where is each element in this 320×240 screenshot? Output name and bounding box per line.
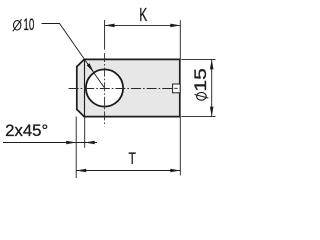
Ø15 bottom arrow — [210, 107, 214, 117]
hole circle Ø10 — [86, 69, 123, 106]
dimension T line — [76, 170, 180, 172]
chamfer left arrow — [66, 141, 76, 145]
Ø15 extension line bottom — [181, 116, 215, 118]
K left arrow — [105, 24, 115, 28]
leader arrowhead — [87, 63, 94, 72]
label Ø10 phi symbol — [13, 19, 22, 31]
K extension line right — [179, 20, 181, 59]
chamfer right arrow — [85, 141, 95, 145]
Ø15 extension line top — [181, 58, 215, 60]
svg-text:K: K — [139, 4, 147, 25]
chamfer dimension line 2x45 — [3, 142, 76, 144]
chamfer extension line (chamfer edge) — [84, 117, 86, 148]
dimension Ø15 line — [211, 59, 213, 116]
center hole notch at right face — [173, 84, 181, 93]
leader line for Ø10 — [42, 24, 104, 88]
notch centerline dash — [174, 87, 178, 89]
chamfer extension line (left edge) — [75, 117, 77, 178]
dimension K line — [105, 24, 181, 26]
vertical centerline / K extension line — [104, 20, 106, 50]
label Ø15 (rotated) phi symbol — [195, 92, 209, 100]
T right arrow — [170, 169, 180, 173]
Ø15 top arrow — [210, 59, 214, 69]
svg-text:T: T — [129, 150, 136, 168]
svg-text:10: 10 — [23, 15, 34, 34]
K right arrow — [170, 24, 180, 28]
T extension line right — [179, 117, 181, 176]
part body (chamfered cylinder, side view) — [77, 59, 180, 116]
svg-text:15: 15 — [191, 68, 210, 92]
svg-text:2x45°: 2x45° — [5, 122, 48, 140]
horizontal centerline — [69, 88, 173, 90]
T left arrow — [76, 169, 86, 173]
chamfer edge line — [84, 60, 86, 116]
